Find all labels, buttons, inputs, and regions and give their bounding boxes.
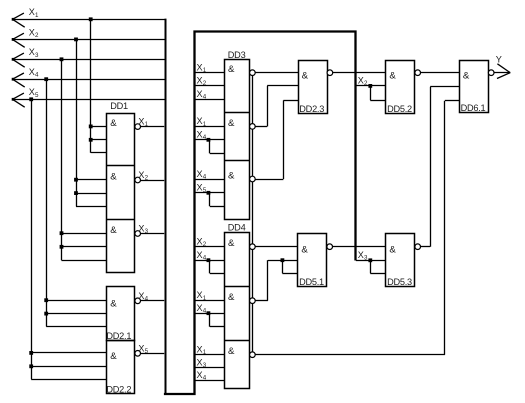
svg-text:&: & (110, 299, 117, 310)
svg-text:4: 4 (203, 173, 207, 180)
svg-text:X: X (29, 7, 35, 17)
svg-text:&: & (228, 118, 235, 129)
svg-text:3: 3 (145, 228, 149, 235)
svg-text:X: X (29, 87, 35, 97)
svg-text:1: 1 (145, 121, 149, 128)
svg-text:&: & (228, 64, 235, 75)
svg-text:X: X (29, 67, 35, 77)
svg-text:X: X (358, 250, 364, 260)
svg-text:&: & (228, 346, 235, 357)
svg-text:Y: Y (496, 55, 502, 65)
svg-text:2: 2 (203, 241, 207, 248)
svg-text:X: X (197, 303, 203, 313)
svg-text:X: X (197, 183, 203, 193)
svg-text:DD5.3: DD5.3 (387, 277, 412, 287)
svg-text:X: X (197, 116, 203, 126)
svg-text:2: 2 (35, 32, 39, 39)
svg-text:&: & (228, 238, 235, 249)
svg-text:1: 1 (203, 67, 207, 74)
svg-text:1: 1 (203, 121, 207, 128)
svg-text:3: 3 (364, 255, 368, 262)
svg-text:4: 4 (145, 295, 149, 302)
svg-text:&: & (110, 225, 117, 236)
svg-text:X: X (197, 250, 203, 260)
svg-text:X: X (138, 343, 144, 353)
svg-text:1: 1 (203, 349, 207, 356)
svg-text:4: 4 (35, 72, 39, 79)
svg-text:X: X (197, 89, 203, 99)
svg-text:DD2.3: DD2.3 (299, 104, 324, 114)
svg-text:DD1: DD1 (110, 101, 128, 111)
svg-text:4: 4 (203, 255, 207, 262)
svg-text:&: & (110, 118, 117, 129)
svg-text:DD4: DD4 (228, 222, 246, 232)
svg-text:5: 5 (35, 92, 39, 99)
svg-text:DD6.1: DD6.1 (461, 103, 486, 113)
svg-text:&: & (389, 245, 396, 256)
svg-text:&: & (228, 171, 235, 182)
svg-text:DD5.2: DD5.2 (387, 104, 412, 114)
svg-text:DD5.1: DD5.1 (299, 277, 324, 287)
svg-text:2: 2 (145, 175, 149, 182)
svg-text:X: X (197, 130, 203, 140)
svg-text:X: X (197, 290, 203, 300)
svg-text:&: & (389, 71, 396, 82)
svg-text:&: & (228, 292, 235, 303)
svg-text:&: & (463, 71, 470, 82)
svg-text:DD2.1: DD2.1 (106, 331, 131, 341)
svg-text:3: 3 (35, 52, 39, 59)
svg-text:3: 3 (203, 362, 207, 369)
svg-text:X: X (197, 237, 203, 247)
svg-text:&: & (110, 172, 117, 183)
svg-text:4: 4 (203, 94, 207, 101)
svg-text:1: 1 (35, 12, 39, 19)
svg-text:5: 5 (203, 187, 207, 194)
svg-text:DD2.2: DD2.2 (106, 385, 131, 395)
svg-text:DD3: DD3 (228, 50, 246, 60)
svg-text:5: 5 (145, 348, 149, 355)
svg-text:&: & (302, 71, 309, 82)
svg-text:4: 4 (203, 374, 207, 381)
svg-text:X: X (197, 357, 203, 367)
svg-text:X: X (197, 63, 203, 73)
svg-text:&: & (110, 351, 117, 362)
svg-text:X: X (138, 291, 144, 301)
svg-text:X: X (197, 345, 203, 355)
svg-text:X: X (138, 224, 144, 234)
svg-text:X: X (138, 170, 144, 180)
svg-text:4: 4 (203, 308, 207, 315)
svg-text:X: X (358, 75, 364, 85)
svg-text:4: 4 (203, 134, 207, 141)
svg-text:2: 2 (203, 80, 207, 87)
svg-text:1: 1 (203, 295, 207, 302)
svg-text:X: X (197, 169, 203, 179)
svg-text:X: X (138, 117, 144, 127)
svg-text:2: 2 (364, 80, 368, 87)
svg-text:X: X (197, 76, 203, 86)
svg-text:X: X (197, 370, 203, 380)
svg-text:X: X (29, 47, 35, 57)
svg-text:X: X (29, 27, 35, 37)
svg-text:&: & (301, 245, 308, 256)
